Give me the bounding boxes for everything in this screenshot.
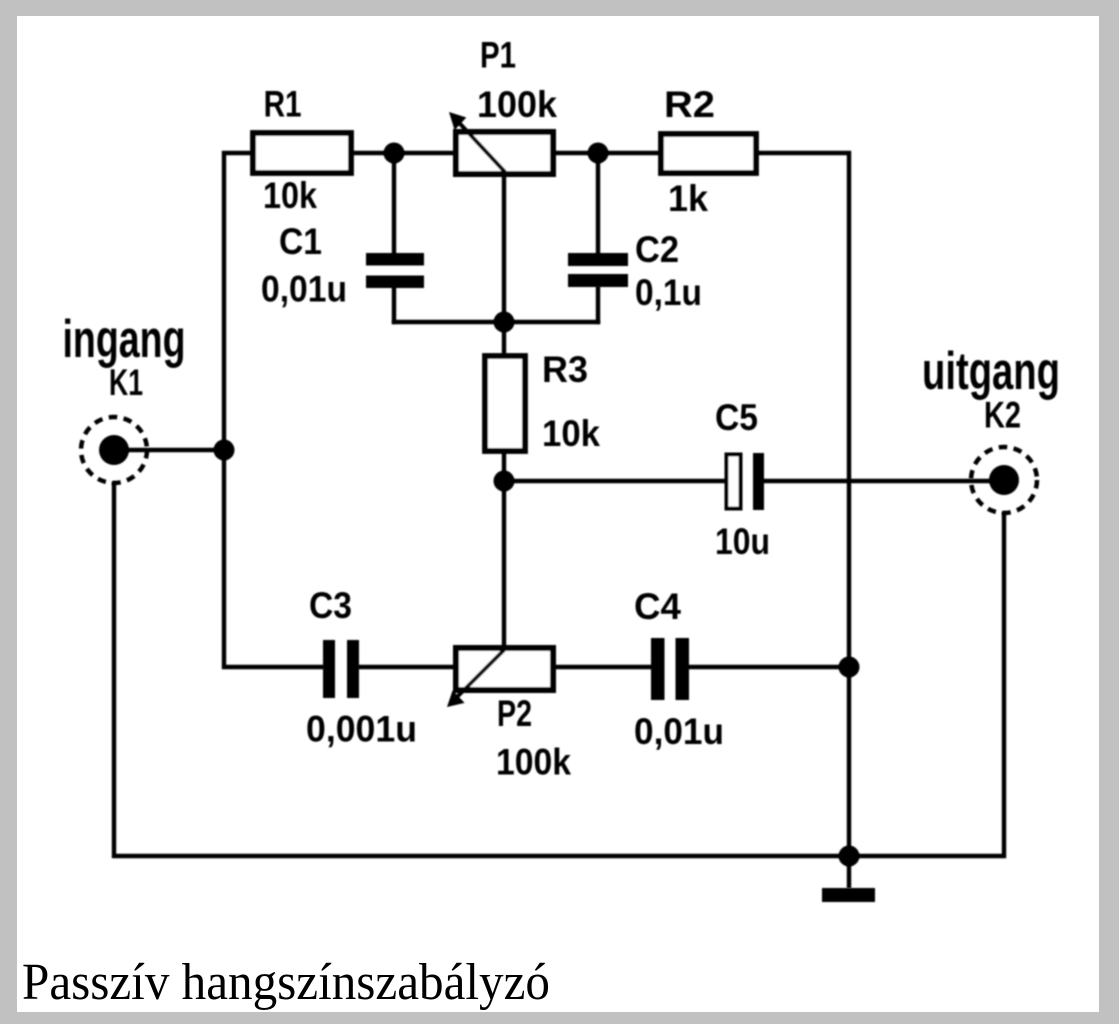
wire: output node to C5 left plate (504, 479, 725, 483)
capacitor C3 (323, 640, 359, 698)
svg-text:10k: 10k (263, 175, 317, 216)
svg-text:C5: C5 (715, 397, 758, 438)
svg-text:10u: 10u (715, 521, 770, 562)
wire: P1 to R2 (553, 151, 661, 155)
wire: C4 right plate to right rail (689, 665, 849, 669)
node G (ground junction) (839, 846, 860, 867)
capacitor C1 (366, 253, 424, 288)
ground (822, 888, 875, 902)
wire: P2 right end to C4 left plate (553, 665, 651, 669)
svg-text:100k: 100k (496, 742, 571, 783)
svg-text:R3: R3 (542, 349, 588, 390)
wire: R1 to P1 (351, 151, 456, 155)
wire: K1 to input node (128, 448, 224, 452)
resistor R3 (485, 356, 525, 451)
resistor R2 (661, 134, 756, 173)
wire: C1 bottom plate down to mid row (392, 288, 396, 322)
wire: C2 bottom plate down to mid row (596, 288, 600, 322)
svg-text:C2: C2 (635, 229, 679, 270)
node C (wiper/mid row junction) (494, 312, 515, 333)
svg-text:P2: P2 (497, 693, 532, 734)
capacitor C4 (651, 638, 689, 700)
capacitor C2 (568, 253, 628, 287)
svg-text:K1: K1 (109, 362, 143, 403)
svg-text:ingang: ingang (63, 310, 186, 369)
svg-text:P1: P1 (480, 34, 516, 75)
wire: R3 bottom to output node (502, 451, 506, 481)
svg-text:10k: 10k (542, 413, 600, 454)
node D (input junction) (214, 440, 235, 461)
svg-text:100k: 100k (477, 84, 557, 125)
capacitor C5 (electrolytic) (727, 453, 765, 510)
svg-text:0,001u: 0,001u (306, 709, 417, 750)
wire: K1 ground drop, bottom ground row, up to K2 (114, 484, 1004, 856)
svg-text:1k: 1k (668, 178, 708, 219)
node F (C4/right rail junction) (839, 657, 860, 678)
potentiometer P2 (447, 648, 553, 707)
svg-text:0,1u: 0,1u (635, 272, 702, 313)
svg-text:K2: K2 (984, 395, 1021, 436)
connector K1 (81, 417, 147, 483)
resistor R1 (253, 133, 351, 173)
wire: C5 right plate to K2 (764, 479, 990, 483)
wire: mid row down to R3 top (502, 322, 506, 356)
wire: C3 right plate to P2 left end (360, 665, 456, 669)
svg-text:uitgang: uitgang (922, 342, 1060, 401)
svg-text:0,01u: 0,01u (261, 269, 347, 310)
svg-text:C4: C4 (634, 586, 681, 627)
potentiometer P1 (449, 112, 553, 174)
svg-text:C1: C1 (279, 221, 322, 262)
wire: left rail from R1 left end down to C3 row (224, 153, 322, 667)
svg-text:R2: R2 (664, 84, 715, 125)
wire: node A down to C1 top plate (392, 153, 396, 253)
svg-text:R1: R1 (264, 84, 302, 125)
wire: output node down to P2 wiper (502, 481, 506, 650)
wire: mid row C1 to C2 (394, 320, 598, 324)
node B (P1/R2/C2 junction) (588, 143, 609, 164)
node A (R1/P1/C1 junction) (384, 143, 405, 164)
connector K2 (971, 447, 1037, 513)
svg-text:Passzív hangszínszabályzó: Passzív hangszínszabályzó (22, 954, 550, 1011)
wire: ground stub (847, 857, 851, 886)
svg-text:0,01u: 0,01u (634, 711, 724, 752)
wire: P1 wiper down to mid row (502, 174, 506, 322)
wire: C2 top plate up to node B (596, 153, 600, 253)
wire: R2 to right rail, down to ground row (756, 153, 849, 857)
svg-text:C3: C3 (309, 585, 352, 626)
node E (output junction below R3) (494, 471, 515, 492)
